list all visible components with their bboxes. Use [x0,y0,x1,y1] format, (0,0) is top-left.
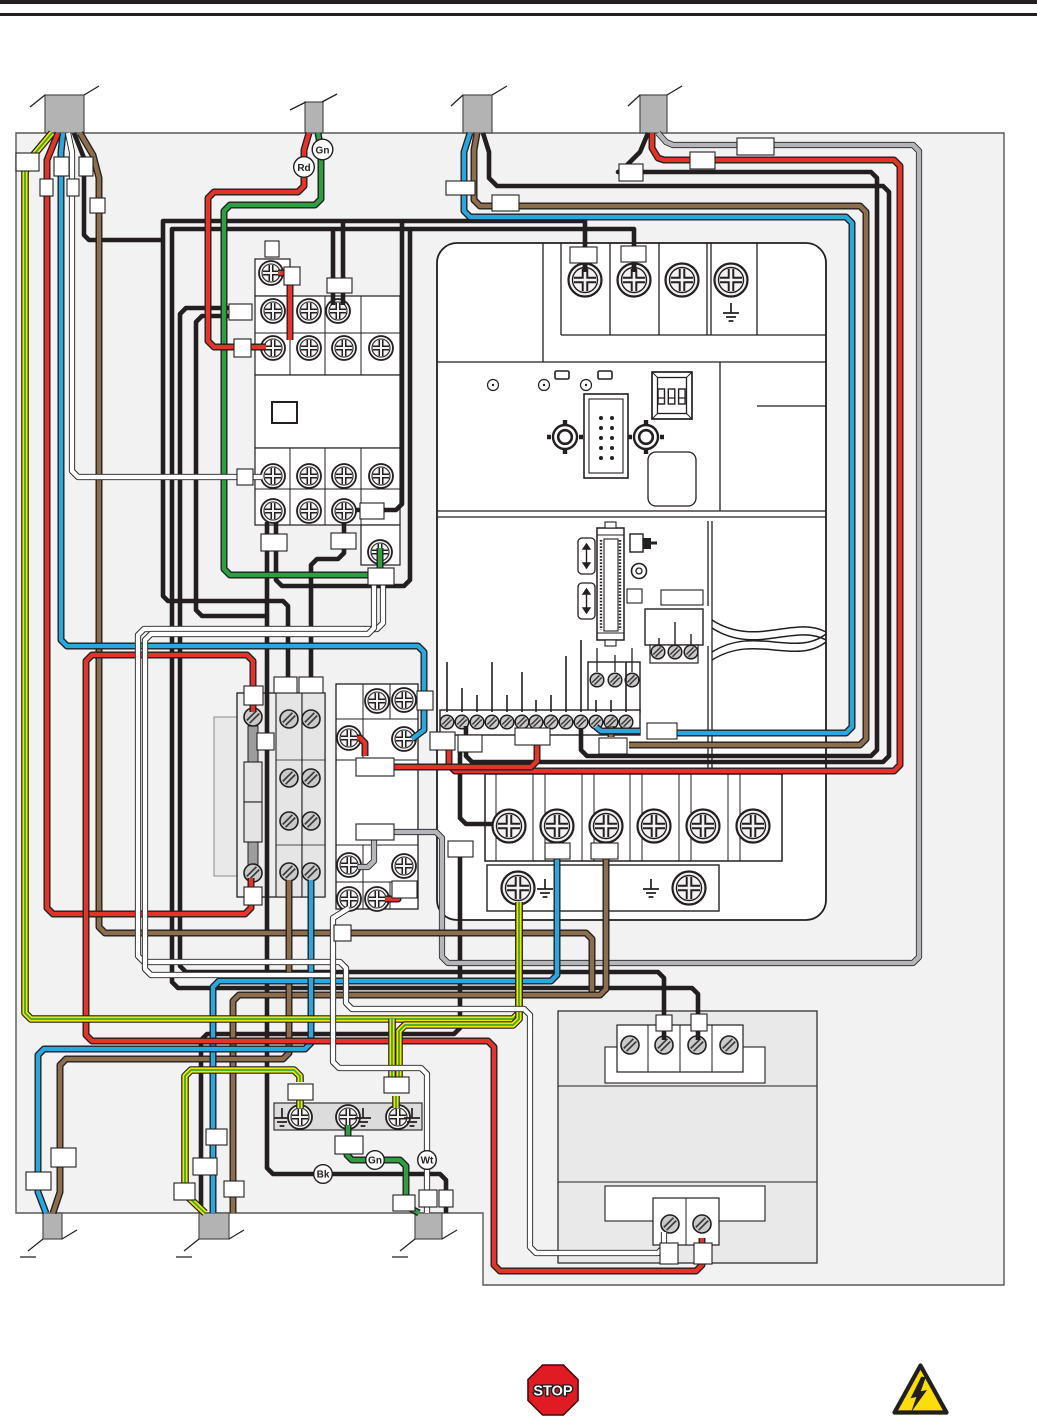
fuse holder F1 body [237,693,325,897]
transformer T1 primary terminal block [617,1025,743,1072]
controller U1 buzzer [632,564,647,579]
output terminal row X2 [485,774,782,861]
terminal rail column 2 [276,693,302,897]
wire black contactor row1 to transformer [180,308,664,1040]
wire black gland3 to strip label via right side [466,133,889,762]
node Rd marker [294,157,315,178]
controller U1 DIP switch S1 [652,372,692,419]
wire black bus branch to contactor row4 col3 [356,221,402,510]
wire black bus L1 controller terminal 1 to rail col2 [163,221,585,690]
wire black gland1 feed [74,133,163,240]
contactor K1 terminal screws row2 [261,336,285,360]
enclosure panel [16,133,1004,1285]
transformer T1 top mount strip [605,1047,765,1083]
wire blue gland3 to strip via right side [464,133,852,733]
controller U1 top terminal screws [569,264,602,297]
controller U1 round connector P1 [547,420,583,454]
controller U1 button B1 [555,371,569,379]
wire black controller label stubs [466,262,634,735]
page header rule 2 [0,13,1037,16]
cable gland bottom 3 [392,1213,457,1257]
ground terminal row X3 [487,865,719,911]
node Bk marker [314,1165,333,1184]
contactor K1 aux screw [368,540,392,564]
ferrule labels gland3 wires [446,181,475,195]
controller U1 aux terminal block B [588,648,640,712]
fuse holder F1 backplate [214,717,262,876]
transformer T1 secondary terminal block [653,1198,719,1245]
node Gn marker bottom [366,1151,385,1170]
wire red relay bottom stub [385,890,398,899]
relay K2 body [336,684,418,909]
controller U1 aux terminal block A [645,609,703,663]
contactor K1 top screw [259,261,283,285]
svg-text:Gn: Gn [368,1156,382,1167]
page header rule 1 [0,0,1037,4]
controller U1 cover plate [648,452,696,506]
rail col2 screws [280,710,298,728]
stop sign icon [528,1365,578,1415]
controller U1 header connector J1 [584,394,628,478]
wire black X2 label to bottom gland 2 [201,857,460,1213]
wire green ground bar to bottom gland 3 [347,1125,419,1213]
electrical hazard warning triangle [895,1366,947,1413]
transformer T1 body [558,1011,817,1263]
wire white contactor aux to transformer secondary [138,584,664,1253]
cable gland top 3 [451,86,507,133]
wire black bus L2 controller terminal 2 to transformer [172,229,698,1040]
controller U1 ribbon cable [712,620,826,660]
controller U1 trim pot [630,534,657,552]
ferrule labels bottom area [288,1084,313,1100]
controller U1 mid panel divider [437,362,826,517]
ferrule labels relay [417,691,433,710]
svg-text:Bk: Bk [317,1170,330,1181]
ferrule labels contactor [265,241,279,257]
ferrule labels fuse [244,686,263,705]
svg-text:Wt: Wt [421,1156,434,1167]
wire white contactor aux second conductor [145,584,374,975]
wire white gland1 to contactor row3 [68,133,262,477]
controller U1 button B2 [598,371,612,379]
wire blue gland1 to relay [61,133,424,739]
cable gland bottom 2 [176,1213,244,1257]
contactor K1 terminal screws row4 [261,499,285,523]
controller U1 outline [437,243,826,920]
relay K2 screws [365,689,389,713]
wire brown gland1 long run [80,133,592,995]
wire blue X2 terminal to bottom gland 2 [213,845,557,1213]
node Gn marker top [312,139,333,160]
controller U1 LED L3 [581,380,592,391]
wire white relay to bottom gland 3 [333,908,427,1213]
wire red fuse top to transformer secondary [86,655,702,1271]
cable gland top 2 [290,94,337,133]
wire black contactor row4 col1 to bottom gland 3 [267,522,446,1213]
wire red contactor jumper [278,273,290,340]
wire red gland2 to contactor row2 [208,133,309,347]
wire red gland1 to fuse bottom [47,133,251,914]
wire brown rail col2 to bottom gland 1 [53,880,289,1213]
wire black branch to contactor row4 col1 [276,229,410,586]
contactor K1 terminal screws row1 [261,299,285,323]
rail col3 screws [302,710,320,728]
wire black contactor row4c to rail col3 [311,522,344,690]
ferrule labels controller top [570,247,597,263]
ferrule labels rail columns [274,677,297,693]
wire red gland4 to strip via right side [449,133,900,771]
wire yellow-green controller PE to ground bar [399,902,519,1080]
wire red relay to strip [357,738,537,767]
wire blue rail col3 to bottom gland 1 [38,880,311,1213]
controller U1 round connector P2 [628,420,664,454]
wire brown X2 terminal to bottom gland 2 [233,845,606,1213]
controller U1 lower divider [708,406,826,774]
wire yellow-green ground bar to bottom gland 2 [185,1070,300,1213]
controller U1 LED L2 [539,380,550,391]
wire black strip label to X2 terminal [460,752,493,824]
svg-text:Gn: Gn [316,145,330,156]
cable gland bottom 1 [20,1213,77,1257]
transformer T1 bottom mount strip [605,1186,765,1221]
ground bus bar PE [274,1103,422,1130]
ferrule labels gland4 wires [737,138,774,155]
fuse screw bottom [244,864,262,882]
controller U1 small pcb rects [627,589,642,603]
cable gland top 4 [628,86,682,133]
terminal strip X1 [440,640,640,735]
wire black gland4 to strip via right side [581,133,877,756]
contactor K1 terminal screws row3 [261,464,285,488]
controller U1 arrow key box 1 [578,538,595,574]
controller U1 top section lines [437,243,826,362]
node Wt marker [418,1151,437,1170]
terminal rail column 3 [302,693,325,897]
wire brown gland3 to strip via right side [474,133,866,745]
cable gland top 1 [30,86,99,133]
ferrule labels terminal strip area [430,732,455,750]
wire yellow-green gland1 to controller PE [25,133,519,1019]
svg-text:STOP: STOP [533,1384,573,1400]
ferrule labels gland1 wires [16,153,39,171]
fuse screw top [244,708,262,726]
controller U1 LED L1 [488,380,499,391]
wire black branch to contactor top row 2 [331,229,336,305]
controller U1 arrow key box 2 [578,583,595,619]
ferrule labels transformer [656,1015,672,1031]
contactor K1 body [255,259,400,565]
svg-text:Rd: Rd [297,163,310,174]
wire green gland2 to contactor aux [224,133,380,575]
fuse F1 cartridge [244,726,262,866]
wire gray gland4 to controller sensor [358,133,919,963]
wire black contactor row1 to bottom gland 3 [196,316,267,616]
wire black branch to contactor top row [341,221,346,305]
controller U1 top ground symbol [723,303,739,321]
controller U1 card edge connector J2 [597,522,624,646]
wire yellow-green branch to ground bar [392,1019,396,1108]
